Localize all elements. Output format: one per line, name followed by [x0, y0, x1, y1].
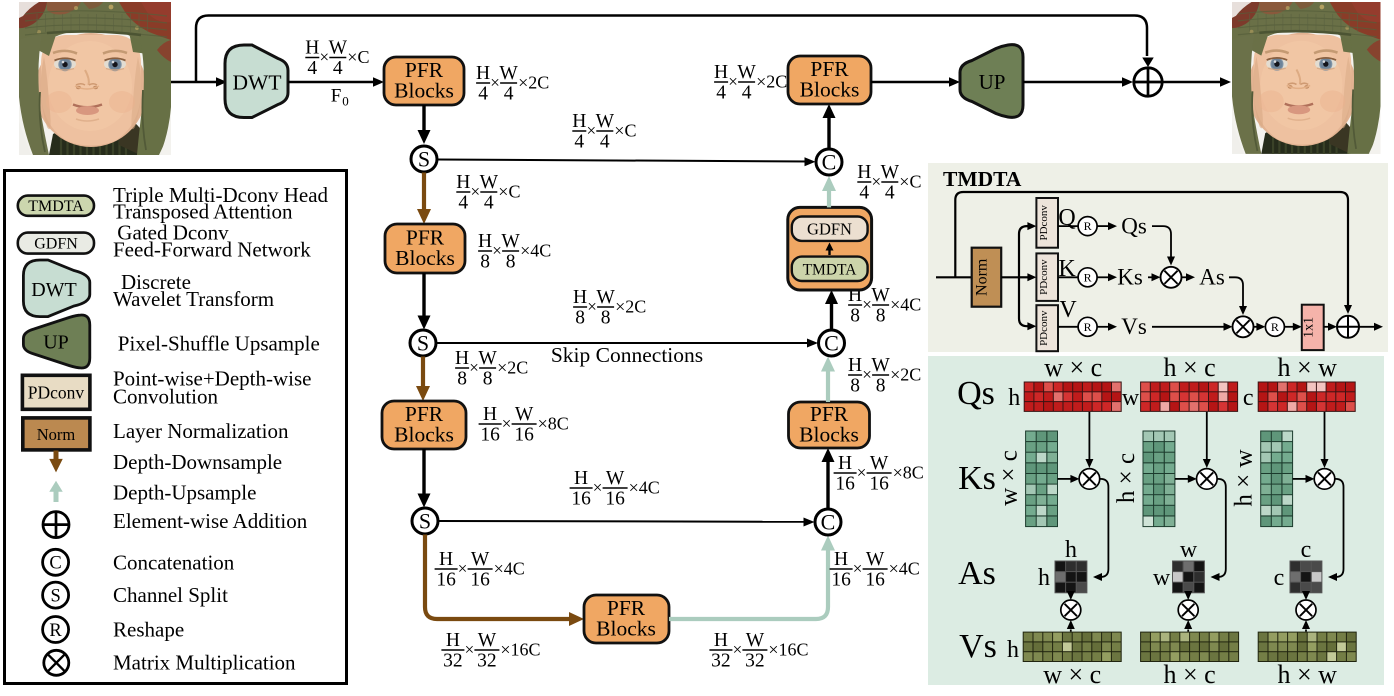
svg-text:W: W: [478, 348, 497, 369]
PDconv block K: [1036, 253, 1058, 301]
svg-text:PDconv: PDconv: [1038, 205, 1050, 241]
svg-text:4: 4: [504, 84, 514, 105]
svg-text:H: H: [714, 62, 728, 83]
column 2 matmul node QsKs: [1197, 469, 1218, 490]
svg-text:Ks: Ks: [1117, 265, 1143, 290]
svg-text:×: ×: [502, 414, 512, 433]
legend depth-downsample arrow: [54, 451, 59, 460]
svg-text:W: W: [596, 287, 615, 308]
svg-text:Convolution: Convolution: [113, 385, 219, 409]
svg-text:4: 4: [574, 132, 584, 153]
wire matmul to As: [1182, 276, 1189, 278]
wire 1x1 conv to addition: [1324, 326, 1330, 328]
column 3 Vs matrix: [1258, 632, 1357, 662]
skip wire S3 to concat C3: [439, 520, 810, 523]
svg-text:H: H: [478, 231, 492, 252]
reshape node R of Q: [1078, 217, 1097, 236]
svg-text:Wavelet Transform: Wavelet Transform: [113, 287, 274, 311]
column 2 matmul node AsVs: [1178, 600, 1198, 620]
svg-text:PDconv: PDconv: [1038, 310, 1050, 346]
arrow encoder PFR 3 down to split S3: [422, 449, 425, 495]
svg-text:32: 32: [711, 651, 731, 672]
svg-text:4: 4: [307, 58, 317, 79]
reshape node R of K: [1078, 268, 1097, 287]
attention matrices panel background: [928, 356, 1384, 685]
column 3 wire Ks to matmul: [1293, 478, 1308, 480]
svg-text:W: W: [596, 111, 615, 132]
GDFN sub-block: [792, 217, 868, 241]
svg-text:Norm: Norm: [974, 258, 991, 296]
legend box: [5, 171, 347, 684]
svg-text:R: R: [1084, 219, 1092, 233]
svg-text:×: ×: [458, 559, 468, 578]
wire R to Vs: [1097, 326, 1110, 328]
column 3 Qs matrix: [1258, 382, 1356, 412]
svg-text:16: 16: [831, 570, 851, 591]
svg-text:×: ×: [465, 640, 475, 659]
svg-text:16: 16: [514, 425, 534, 446]
svg-text:×8C: ×8C: [893, 463, 924, 483]
svg-text:h: h: [1007, 637, 1019, 663]
svg-text:0: 0: [342, 94, 349, 109]
wire input image to DWT: [171, 81, 222, 84]
svg-text:h × w: h × w: [1277, 353, 1337, 382]
svg-text:TMDTA: TMDTA: [803, 262, 858, 279]
svg-text:8: 8: [850, 306, 860, 327]
column 3 arrow As to matmul: [1305, 593, 1307, 594]
column 3 Ks matrix: [1260, 431, 1293, 528]
svg-text:R: R: [1271, 320, 1279, 334]
wire DWT to encoder PFR blocks 1: [288, 81, 379, 84]
svg-text:Depth-Downsample: Depth-Downsample: [113, 450, 282, 474]
svg-text:H: H: [456, 172, 470, 193]
svg-text:W: W: [478, 630, 497, 651]
svg-text:H: H: [834, 549, 848, 570]
svg-text:R: R: [1084, 320, 1092, 334]
svg-text:As: As: [958, 555, 996, 592]
svg-text:w: w: [1153, 565, 1171, 591]
svg-text:16: 16: [869, 474, 889, 495]
TMDTA bypass wire to addition: [955, 192, 1348, 305]
svg-text:8: 8: [850, 376, 860, 397]
svg-text:×: ×: [853, 559, 863, 578]
svg-text:V: V: [1059, 297, 1077, 323]
svg-text:H: H: [857, 162, 871, 183]
TMDTA input wire: [936, 276, 972, 278]
svg-text:W: W: [871, 355, 890, 376]
svg-text:×16C: ×16C: [768, 640, 808, 660]
svg-text:Feed-Forward Network: Feed-Forward Network: [113, 237, 311, 261]
Norm block: [972, 248, 1002, 307]
svg-text:W: W: [870, 453, 889, 474]
svg-text:S: S: [417, 331, 429, 356]
column 1 As matrix: [1055, 561, 1088, 594]
svg-text:GDFN: GDFN: [807, 220, 852, 239]
svg-text:H: H: [574, 468, 588, 489]
svg-text:TMDTA: TMDTA: [943, 167, 1022, 191]
svg-text:×: ×: [593, 478, 603, 497]
1x1 convolution block: [1302, 305, 1324, 350]
depth-upsample arrow transformer block to concat C1: [827, 186, 831, 207]
svg-text:H: H: [714, 630, 728, 651]
depth-downsample arrow S2 to encoder PFR 3: [421, 357, 425, 390]
svg-text:16: 16: [571, 489, 591, 510]
svg-text:1x1: 1x1: [1302, 317, 1317, 338]
encoder PFR blocks level 2: [385, 224, 465, 273]
TMDTA detail panel background: [928, 163, 1388, 352]
svg-text:W: W: [606, 468, 625, 489]
wire addition node to output image: [1163, 81, 1225, 84]
svg-text:C: C: [824, 331, 839, 356]
svg-text:Vs: Vs: [1121, 314, 1147, 339]
svg-text:DWT: DWT: [31, 279, 77, 301]
transformer block (GDFN over TMDTA): [788, 207, 872, 290]
decoder PFR blocks level 3: [789, 402, 870, 448]
svg-text:H: H: [838, 453, 852, 474]
column 3 matmul node QsKs: [1314, 469, 1335, 490]
column 3 As matrix: [1290, 561, 1323, 594]
column 2 arrow As to matmul: [1187, 593, 1189, 594]
svg-text:8: 8: [575, 308, 585, 329]
svg-text:S: S: [418, 147, 430, 172]
svg-text:W: W: [737, 62, 756, 83]
encoder PFR blocks level 3: [382, 401, 466, 449]
svg-text:8: 8: [457, 369, 467, 390]
svg-text:W: W: [871, 285, 890, 306]
svg-text:H: H: [483, 404, 497, 425]
svg-text:4: 4: [484, 193, 494, 214]
column 2 As matrix: [1172, 561, 1205, 594]
column 1 wire Ks to matmul: [1058, 478, 1073, 480]
column 2 wire Ks to matmul: [1175, 478, 1190, 480]
svg-text:Blocks: Blocks: [596, 617, 656, 641]
matmul node AsV: [1233, 316, 1254, 337]
svg-text:Qs: Qs: [1121, 214, 1147, 239]
svg-text:H: H: [305, 38, 319, 59]
svg-text:×8C: ×8C: [538, 414, 569, 434]
svg-text:16: 16: [436, 570, 456, 591]
svg-text:h × w: h × w: [1277, 660, 1337, 689]
column 1 arrow Qs to matmul: [1088, 412, 1090, 461]
svg-text:16: 16: [865, 570, 885, 591]
wire As down to matmul V: [1229, 277, 1243, 308]
svg-text:8: 8: [876, 306, 886, 327]
legend PDconv symbol: [22, 375, 90, 409]
depth-upsample wire bottleneck to concat C3: [669, 547, 828, 619]
concat node C2: [819, 330, 845, 356]
svg-text:h: h: [1038, 565, 1050, 591]
svg-text:H: H: [573, 287, 587, 308]
column 2 wire matmul down to As: [1213, 479, 1226, 577]
svg-text:4: 4: [859, 183, 869, 204]
svg-text:As: As: [1199, 265, 1225, 290]
decoder PFR blocks level 1: [788, 56, 871, 104]
column 1 arrow Vs to matmul: [1070, 630, 1072, 632]
column 2 arrow Vs to matmul: [1187, 630, 1189, 632]
svg-text:c: c: [1274, 565, 1285, 591]
DWT block: [225, 45, 288, 118]
svg-text:h × c: h × c: [1113, 453, 1140, 503]
svg-text:8: 8: [483, 369, 493, 390]
PDconv block Q: [1036, 198, 1058, 248]
svg-text:Vs: Vs: [959, 628, 997, 665]
column 3 matmul node AsVs: [1296, 600, 1316, 620]
svg-text:TMDTA: TMDTA: [28, 198, 84, 215]
arrow C1 up to decoder PFR blocks 1: [827, 116, 830, 149]
svg-text:UP: UP: [979, 70, 1006, 94]
PDconv block V: [1036, 305, 1058, 351]
svg-text:W: W: [329, 38, 348, 59]
svg-text:Norm: Norm: [37, 425, 76, 444]
svg-text:W: W: [501, 231, 520, 252]
svg-text:×2C: ×2C: [518, 73, 549, 93]
legend UP symbol: [23, 315, 89, 368]
legend matrix multiplication symbol: [44, 650, 69, 675]
svg-text:Pixel-Shuffle Upsample: Pixel-Shuffle Upsample: [118, 331, 320, 355]
column 3 arrow Vs to matmul: [1305, 630, 1307, 632]
svg-text:Channel Split: Channel Split: [113, 583, 228, 607]
svg-text:8: 8: [876, 376, 886, 397]
svg-text:H: H: [455, 348, 469, 369]
column 2 Ks matrix: [1143, 431, 1176, 528]
svg-text:4: 4: [716, 83, 726, 104]
column 3 wire matmul down to As: [1330, 479, 1344, 577]
svg-text:PDconv: PDconv: [1038, 259, 1050, 295]
legend Norm symbol: [23, 418, 90, 450]
svg-text:32: 32: [443, 651, 463, 672]
svg-text:Ks: Ks: [958, 460, 996, 497]
svg-text:PDconv: PDconv: [28, 382, 85, 402]
svg-text:×4C: ×4C: [494, 559, 525, 579]
wire V to reshape: [1058, 326, 1078, 328]
svg-text:H: H: [572, 111, 586, 132]
legend reshape symbol: [43, 617, 69, 643]
svg-text:4: 4: [478, 84, 488, 105]
svg-text:×2C: ×2C: [615, 297, 646, 317]
svg-text:×2C: ×2C: [890, 365, 921, 385]
svg-text:Element-wise Addition: Element-wise Addition: [113, 509, 308, 533]
svg-text:h × c: h × c: [1163, 660, 1215, 689]
svg-text:16: 16: [835, 474, 855, 495]
svg-text:C: C: [821, 510, 836, 535]
TMDTA output arrow: [1359, 326, 1376, 328]
legend concatenation symbol: [43, 549, 69, 575]
wire Ks to matmul: [1148, 276, 1153, 278]
column 1 matmul node QsKs: [1079, 469, 1100, 490]
svg-text:H: H: [476, 63, 490, 84]
column 2 Qs matrix: [1140, 382, 1238, 412]
svg-text:4: 4: [885, 183, 895, 204]
svg-text:Blocks: Blocks: [394, 423, 454, 447]
column 1 matmul node AsVs: [1061, 600, 1081, 620]
encoder PFR blocks level 1: [384, 57, 464, 105]
svg-text:S: S: [419, 509, 431, 534]
column 1 wire matmul down to As: [1095, 479, 1108, 577]
concat node C1: [816, 149, 842, 175]
legend TMDTA symbol: [18, 196, 94, 216]
UP pixel-shuffle upsample block: [960, 45, 1023, 118]
split node S3: [412, 508, 438, 534]
output image (restored baby photo): [1232, 2, 1381, 154]
element-wise addition node: [1134, 68, 1162, 96]
svg-text:R: R: [1084, 270, 1092, 284]
column 1 Qs matrix: [1024, 382, 1122, 412]
wire Qs down to matmul As: [1152, 226, 1171, 258]
svg-text:c: c: [1243, 385, 1254, 411]
skip wire S1 to concat C1: [438, 160, 811, 162]
wire Vs to matmul: [1152, 326, 1225, 328]
svg-text:Qs: Qs: [957, 375, 995, 412]
wire matmul to reshape: [1254, 326, 1259, 328]
depth-downsample arrow S1 to encoder PFR 2: [422, 173, 426, 213]
svg-text:Blocks: Blocks: [395, 246, 455, 270]
legend channel split symbol: [43, 582, 69, 608]
svg-text:×C: ×C: [614, 121, 636, 141]
svg-text:C: C: [822, 150, 837, 175]
svg-text:16: 16: [470, 570, 490, 591]
split node S1: [411, 146, 437, 172]
svg-text:Blocks: Blocks: [800, 78, 860, 102]
svg-text:w × c: w × c: [1043, 660, 1101, 689]
legend GDFN symbol: [18, 233, 94, 254]
split node S2: [410, 330, 436, 356]
svg-text:W: W: [499, 63, 518, 84]
wire R to Qs: [1097, 225, 1110, 227]
matmul node QK: [1161, 267, 1182, 288]
svg-text:×2C: ×2C: [756, 72, 787, 92]
bottleneck PFR blocks: [584, 595, 669, 643]
svg-text:H: H: [446, 630, 460, 651]
svg-text:4: 4: [742, 83, 752, 104]
QKV fan wires: [1019, 226, 1031, 326]
column 1 Vs matrix: [1023, 632, 1122, 662]
svg-text:R: R: [49, 621, 62, 641]
svg-text:×4C: ×4C: [890, 295, 921, 315]
svg-text:8: 8: [480, 252, 490, 273]
svg-text:w: w: [1122, 385, 1140, 411]
reshape node R output: [1265, 317, 1284, 336]
svg-text:h: h: [1065, 537, 1077, 563]
svg-text:×: ×: [857, 463, 867, 482]
arrow C3 up to decoder PFR blocks 3: [826, 460, 829, 509]
svg-text:W: W: [866, 549, 885, 570]
svg-text:×C: ×C: [347, 47, 369, 67]
column 2 Vs matrix: [1140, 632, 1239, 662]
svg-text:W: W: [471, 549, 490, 570]
svg-text:H: H: [848, 355, 862, 376]
svg-text:4: 4: [458, 193, 468, 214]
svg-text:4: 4: [600, 132, 610, 153]
svg-text:×: ×: [733, 640, 743, 659]
svg-text:8: 8: [506, 252, 516, 273]
TMDTA sub-block: [792, 257, 868, 281]
wire decoder PFR 1 to UP block: [871, 81, 954, 84]
svg-text:Blocks: Blocks: [799, 423, 859, 447]
bypass wire over the top to addition node: [196, 16, 1147, 83]
svg-text:UP: UP: [43, 332, 69, 354]
svg-text:h: h: [1008, 385, 1020, 411]
skip wire S2 to concat C2: [437, 342, 813, 344]
svg-text:W: W: [480, 172, 499, 193]
column 1 arrow As to matmul: [1070, 593, 1072, 594]
svg-text:32: 32: [745, 651, 765, 672]
svg-text:×4C: ×4C: [520, 241, 551, 261]
svg-text:GDFN: GDFN: [34, 236, 78, 253]
svg-text:×C: ×C: [899, 172, 921, 192]
svg-text:Blocks: Blocks: [394, 79, 454, 103]
svg-text:Skip Connections: Skip Connections: [551, 343, 703, 367]
svg-text:Reshape: Reshape: [113, 617, 184, 641]
svg-text:Depth-Upsample: Depth-Upsample: [113, 481, 256, 505]
svg-text:×C: ×C: [498, 182, 520, 202]
wire Q to reshape: [1058, 225, 1078, 227]
wire reshape to 1x1 conv: [1284, 326, 1294, 328]
svg-text:4: 4: [333, 58, 343, 79]
legend element-wise addition symbol: [43, 512, 69, 538]
svg-text:h × c: h × c: [1163, 353, 1215, 382]
legend DWT symbol: [23, 260, 89, 317]
svg-text:W: W: [746, 630, 765, 651]
svg-text:F: F: [331, 86, 342, 107]
svg-text:w: w: [1180, 537, 1198, 563]
arrow encoder PFR 1 down to split S1: [422, 105, 425, 132]
svg-text:16: 16: [480, 425, 500, 446]
svg-text:c: c: [1301, 537, 1312, 563]
svg-text:8: 8: [601, 308, 611, 329]
depth-upsample arrow decoder PFR 3 to concat C2: [826, 368, 830, 402]
depth-downsample wire S3 to bottleneck PFR: [425, 535, 572, 620]
svg-text:W: W: [881, 162, 900, 183]
wire R to Ks: [1097, 276, 1110, 278]
column 3 arrow Qs to matmul: [1324, 412, 1326, 461]
svg-text:h × w: h × w: [1231, 449, 1258, 506]
arrow TMDTA to GDFN: [828, 248, 830, 255]
reshape node R of V: [1078, 317, 1097, 336]
svg-text:w × c: w × c: [996, 450, 1023, 506]
svg-text:×16C: ×16C: [500, 640, 540, 660]
svg-text:16: 16: [605, 489, 625, 510]
svg-text:Layer Normalization: Layer Normalization: [113, 419, 289, 443]
TMDTA addition node: [1337, 316, 1359, 338]
column 2 arrow Qs to matmul: [1206, 412, 1208, 461]
wire UP block to addition node: [1023, 81, 1127, 84]
svg-text:Q: Q: [1058, 205, 1075, 231]
svg-text:DWT: DWT: [233, 71, 282, 95]
svg-text:S: S: [50, 586, 60, 606]
svg-text:Concatenation: Concatenation: [113, 550, 235, 574]
arrow encoder PFR 2 down to split S2: [422, 273, 425, 317]
svg-text:H: H: [439, 549, 453, 570]
svg-text:32: 32: [477, 651, 497, 672]
svg-text:W: W: [515, 404, 534, 425]
svg-text:×2C: ×2C: [497, 358, 528, 378]
svg-text:Matrix Multiplication: Matrix Multiplication: [113, 651, 296, 675]
svg-text:C: C: [49, 554, 61, 574]
wire K to reshape: [1058, 276, 1078, 278]
svg-text:×4C: ×4C: [629, 478, 660, 498]
wire Norm to QKV fan: [1001, 276, 1019, 278]
arrow C2 up to TMDTA-GDFN block: [830, 302, 833, 330]
legend depth-upsample arrow: [54, 491, 59, 502]
column 1 Ks matrix: [1025, 431, 1058, 528]
svg-text:w × c: w × c: [1044, 353, 1102, 382]
svg-text:×4C: ×4C: [889, 559, 920, 579]
concat node C3: [815, 509, 841, 535]
